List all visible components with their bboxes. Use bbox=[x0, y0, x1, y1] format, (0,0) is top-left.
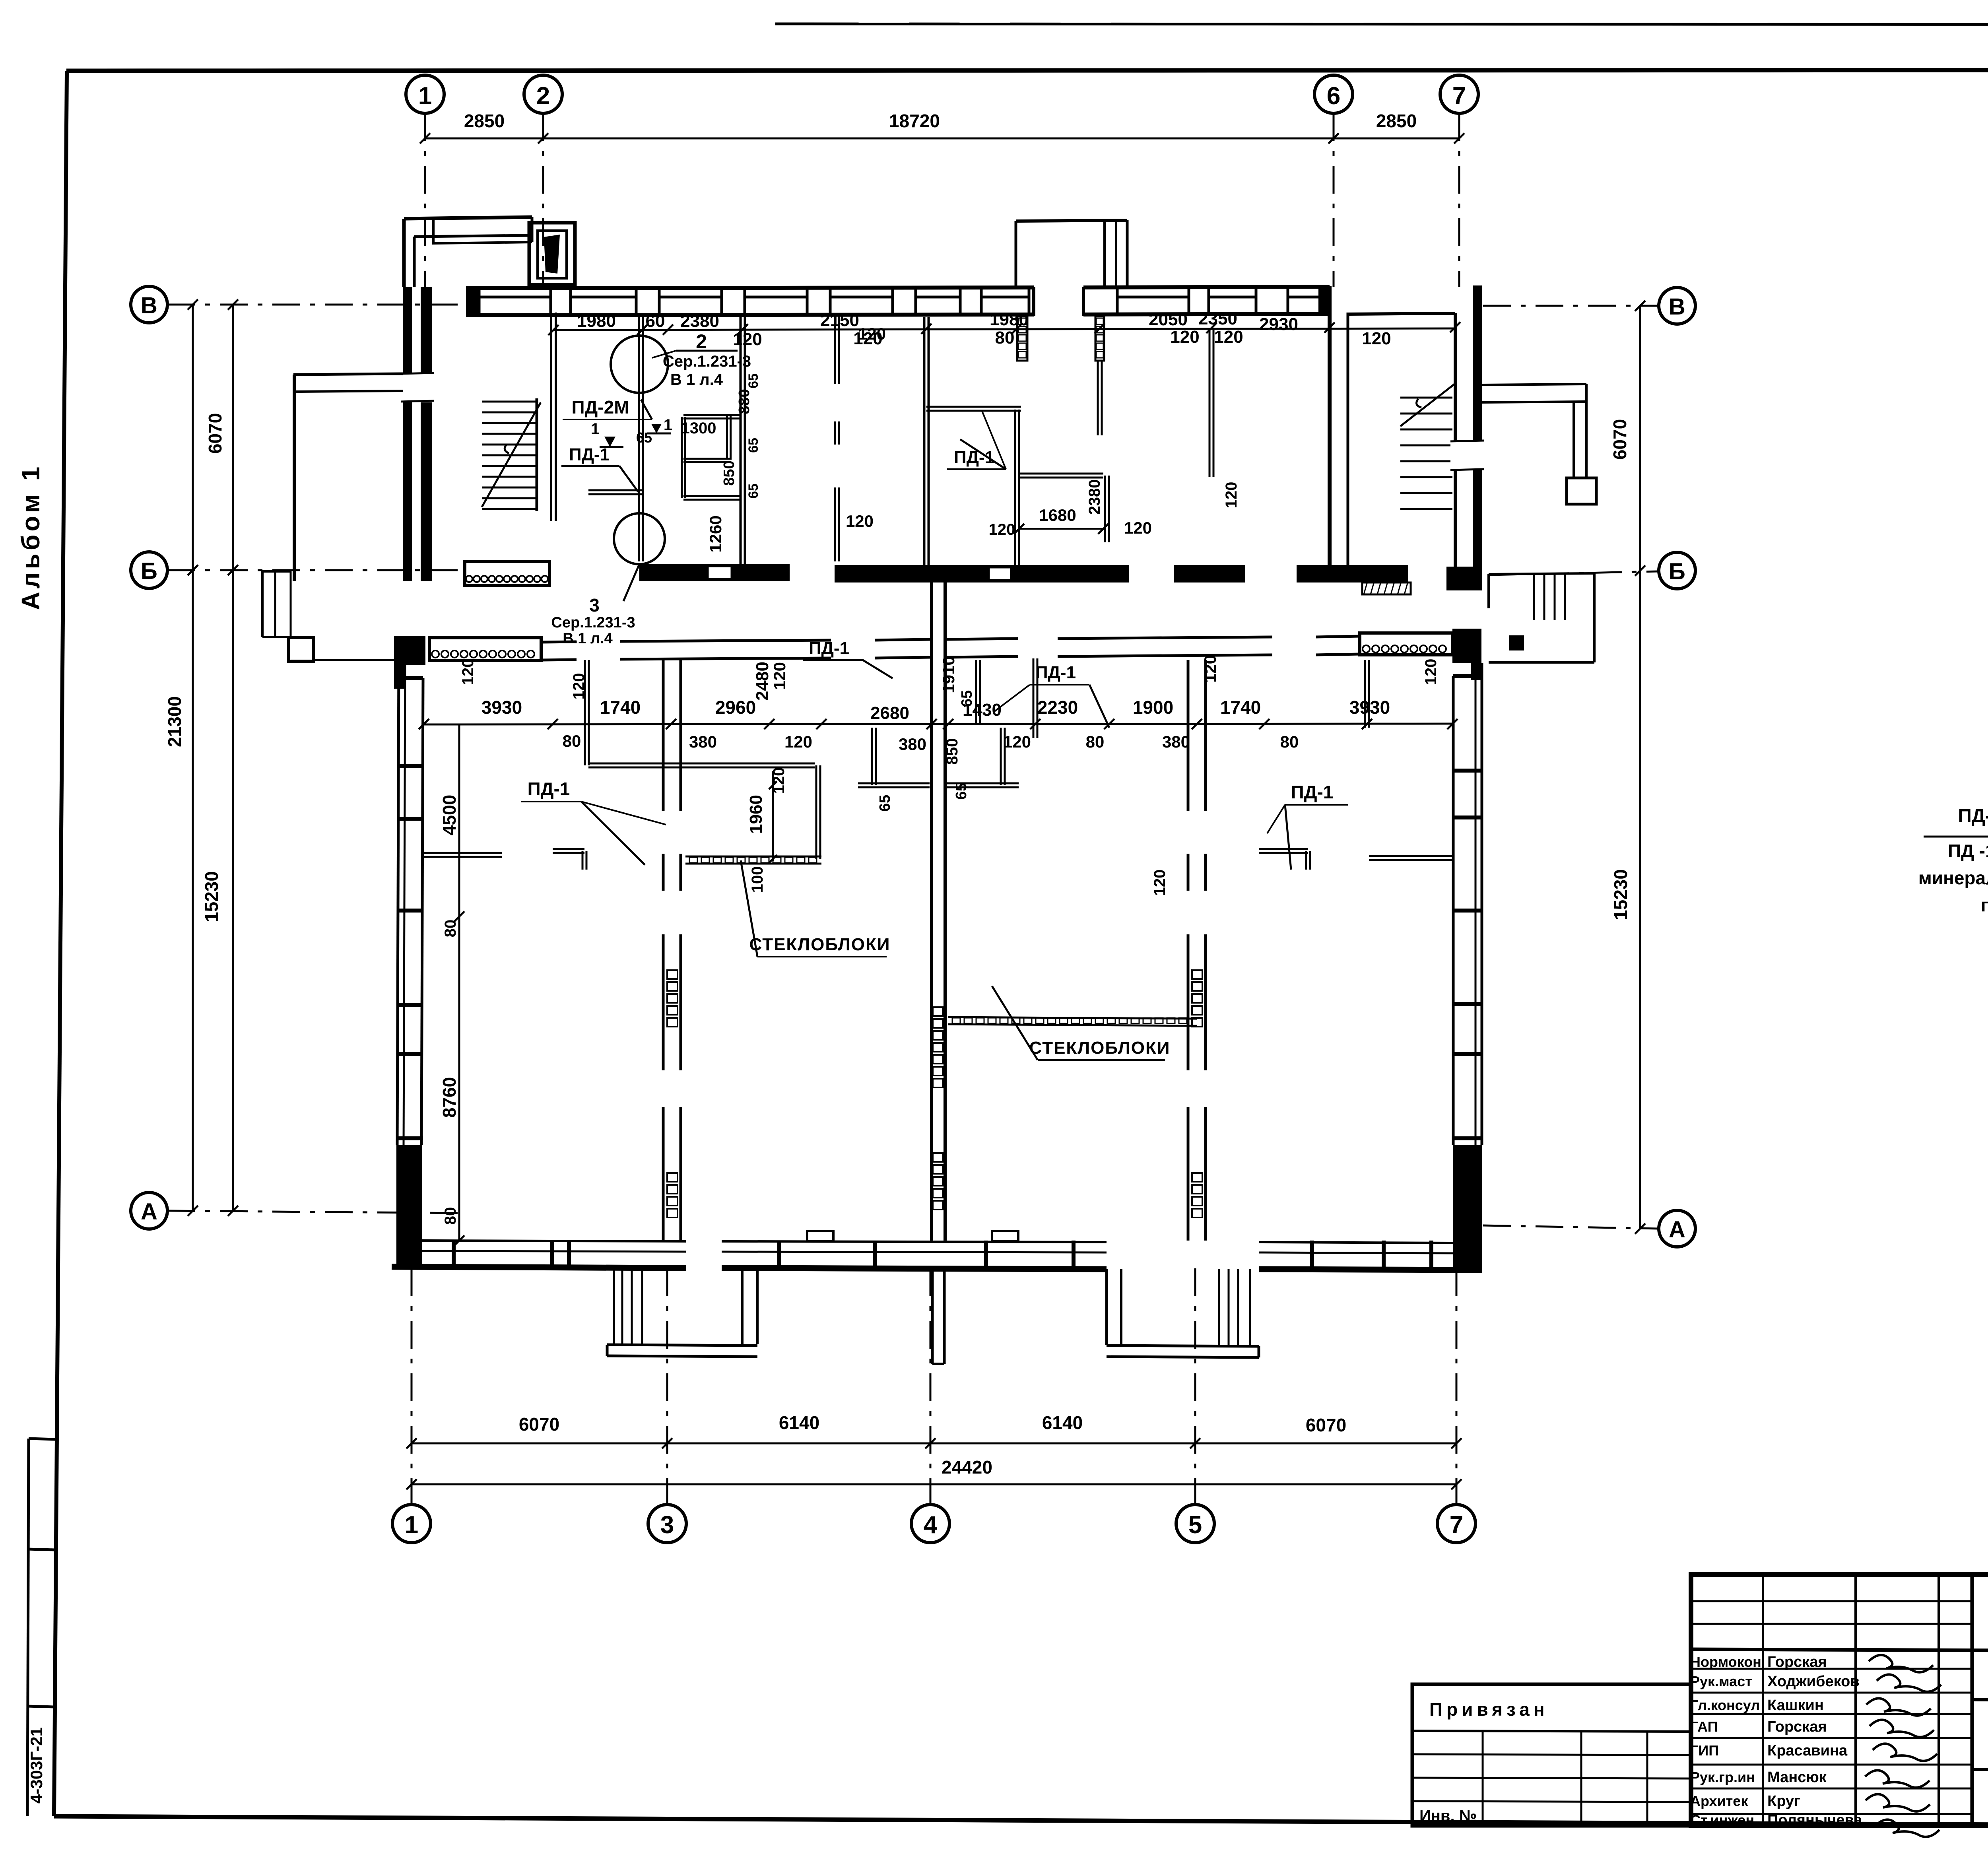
glass partition left bbox=[685, 856, 821, 858]
south wall cap bbox=[452, 1241, 456, 1268]
svg-text:Нормокон: Нормокон bbox=[1690, 1654, 1761, 1670]
central spine wall bbox=[930, 581, 933, 1241]
svg-text:120: 120 bbox=[1214, 327, 1243, 347]
window В steps bbox=[478, 287, 481, 297]
svg-text:80: 80 bbox=[995, 328, 1015, 348]
window В box bbox=[571, 297, 636, 315]
axis3 wall seg bbox=[662, 660, 665, 811]
west wall cap bbox=[397, 1052, 423, 1056]
upper west wall window bbox=[401, 373, 434, 402]
svg-text:3930: 3930 bbox=[1349, 697, 1390, 718]
svg-text:5: 5 bbox=[1188, 1511, 1202, 1539]
east wall cap bbox=[1453, 909, 1482, 913]
wall В top line right bbox=[1083, 287, 1330, 287]
glass partition v2 bbox=[1095, 316, 1104, 361]
svg-text:7: 7 bbox=[1450, 1511, 1463, 1539]
svg-text:120: 120 bbox=[846, 512, 874, 530]
sig row line bbox=[1691, 1713, 1972, 1715]
svg-text:120: 120 bbox=[1422, 659, 1440, 685]
axis circle 7 top bbox=[1440, 75, 1478, 113]
axis line Б left bbox=[167, 569, 465, 571]
svg-text:6070: 6070 bbox=[205, 413, 225, 454]
dim line 1680 bbox=[1019, 528, 1103, 530]
axis circle 4 bottom bbox=[911, 1505, 949, 1543]
south wall cap bbox=[1382, 1241, 1386, 1268]
svg-text:100: 100 bbox=[749, 866, 766, 893]
west entrance link bbox=[313, 659, 396, 661]
window В steps bbox=[980, 287, 983, 297]
axis line 7 top bbox=[1458, 113, 1460, 287]
window В steps bbox=[658, 287, 661, 297]
axis line 1 bottom bbox=[411, 1268, 413, 1505]
porch A east wall bbox=[741, 1268, 744, 1344]
dim tick bbox=[1030, 719, 1041, 729]
h partition y1925 bbox=[588, 763, 815, 765]
svg-text:Рук.маст: Рук.маст bbox=[1690, 1673, 1752, 1689]
window В steps bbox=[569, 287, 572, 297]
partition x2558 glass bbox=[1014, 410, 1016, 579]
svg-text:1740: 1740 bbox=[600, 697, 641, 718]
привязан cols bbox=[1482, 1731, 1484, 1826]
svg-text:80: 80 bbox=[1086, 732, 1105, 751]
svg-text:7: 7 bbox=[1452, 82, 1466, 110]
south wall cap bbox=[1429, 1241, 1433, 1268]
east entrance outline bbox=[1489, 573, 1594, 574]
wall Б seg2 marks bbox=[708, 566, 732, 579]
east wall cap bbox=[1453, 1052, 1482, 1056]
north wall seg6 bbox=[1316, 636, 1360, 637]
partition x2105 bbox=[834, 316, 836, 384]
stairwell top inner bbox=[1348, 313, 1455, 314]
svg-text:2150: 2150 bbox=[820, 311, 859, 330]
dim tick bbox=[228, 1206, 238, 1216]
window В box bbox=[830, 297, 893, 315]
partition x3438 bbox=[1364, 660, 1366, 728]
partition small rooms v1 bbox=[681, 417, 683, 498]
wall Б seg2 bbox=[639, 564, 790, 581]
upper west wall inner bar bbox=[421, 287, 432, 581]
north wall hatched window E bbox=[1360, 633, 1452, 655]
axis3 wall seg bbox=[662, 854, 665, 891]
axis5 wall seg bbox=[1187, 660, 1190, 811]
window В box bbox=[659, 297, 722, 315]
north wall seg3 bbox=[875, 639, 930, 640]
svg-text:Привязан: Привязан bbox=[1429, 1699, 1549, 1720]
left column outer line bbox=[27, 1439, 29, 1816]
svg-text:ПД-1: ПД-1 bbox=[1291, 782, 1334, 802]
h partition west2 bbox=[553, 848, 584, 850]
window В steps bbox=[1208, 287, 1210, 297]
svg-text:ГАП: ГАП bbox=[1690, 1718, 1718, 1735]
glass partition v1 bbox=[1017, 316, 1027, 361]
svg-text:4-303Г-21: 4-303Г-21 bbox=[27, 1727, 46, 1804]
stub h y1975 right bbox=[947, 782, 1019, 784]
axis5 wall seg bbox=[1187, 1107, 1190, 1241]
svg-text:В: В bbox=[1669, 294, 1685, 320]
svg-text:6140: 6140 bbox=[1042, 1412, 1083, 1433]
sig row line bbox=[1691, 1668, 1972, 1670]
svg-text:минераловатных: минераловатных bbox=[1918, 868, 1988, 888]
svg-text:В.1 л.4: В.1 л.4 bbox=[563, 630, 613, 647]
detail circle 3 leader bbox=[623, 564, 639, 601]
sig col line bbox=[1854, 1575, 1857, 1826]
east walkway turn bbox=[1573, 402, 1575, 478]
svg-text:Кашкин: Кашкин bbox=[1767, 1697, 1824, 1714]
svg-text:2230: 2230 bbox=[1037, 697, 1078, 718]
projection top bbox=[1016, 220, 1127, 221]
svg-text:А: А bbox=[141, 1199, 157, 1225]
south wall cap bbox=[550, 1241, 554, 1268]
svg-text:1260: 1260 bbox=[706, 515, 725, 552]
axis line А right bbox=[1483, 1225, 1659, 1229]
detail circle 2 bbox=[611, 336, 668, 393]
axis line 5 bottom bbox=[1194, 1268, 1196, 1505]
axis line 1 top bbox=[424, 113, 426, 287]
svg-text:8760: 8760 bbox=[439, 1077, 460, 1118]
svg-text:2: 2 bbox=[696, 330, 707, 353]
svg-text:60: 60 bbox=[646, 311, 665, 331]
axis line В right bbox=[1483, 305, 1659, 307]
dim tick bbox=[1190, 1438, 1200, 1448]
svg-text:Сер.1.231-3: Сер.1.231-3 bbox=[663, 353, 751, 370]
h partition east bbox=[1369, 855, 1452, 857]
axis3 wall glass c bbox=[667, 970, 678, 979]
upper dim line bbox=[553, 328, 1455, 330]
svg-text:1740: 1740 bbox=[1220, 697, 1261, 718]
svg-text:Горская: Горская bbox=[1767, 1654, 1827, 1670]
signatures squiggles bbox=[1869, 1655, 1933, 1672]
dim tick bbox=[538, 133, 548, 144]
east wall cap bbox=[1453, 674, 1482, 678]
west entrance platform bbox=[289, 637, 313, 661]
bottom dim line segments bbox=[412, 1443, 1456, 1445]
axis circle В left bbox=[131, 286, 167, 323]
svg-text:65: 65 bbox=[636, 429, 652, 446]
sig row line bbox=[1691, 1764, 1972, 1766]
svg-text:1: 1 bbox=[418, 82, 432, 110]
svg-text:СТЕКЛОБЛОКИ: СТЕКЛОБЛОКИ bbox=[1029, 1038, 1171, 1058]
svg-text:2930: 2930 bbox=[1259, 315, 1298, 334]
svg-text:120: 120 bbox=[989, 521, 1015, 538]
dim tick bbox=[1104, 719, 1114, 729]
east walkway lines bbox=[1482, 384, 1586, 385]
svg-text:120: 120 bbox=[1124, 518, 1152, 537]
upper dim ticks bbox=[548, 325, 559, 335]
svg-text:ПД-1: ПД-1 bbox=[528, 779, 570, 799]
svg-text:4500: 4500 bbox=[439, 795, 460, 835]
porch B base bbox=[1107, 1346, 1259, 1346]
svg-text:2350: 2350 bbox=[1198, 309, 1237, 328]
svg-text:1980: 1980 bbox=[577, 311, 616, 331]
svg-text:Мансюк: Мансюк bbox=[1767, 1769, 1827, 1786]
svg-text:ПД-1: ПД-1 bbox=[1035, 663, 1076, 682]
porch A base bbox=[607, 1345, 757, 1346]
sig row line bbox=[1691, 1813, 1972, 1815]
west wall cap bbox=[397, 909, 423, 913]
glass partition right bbox=[948, 1017, 1197, 1019]
vestibule window box bbox=[529, 223, 575, 285]
svg-text:1980: 1980 bbox=[990, 310, 1029, 329]
stairs right diagonal bbox=[1400, 384, 1454, 426]
stairs left treads bbox=[482, 401, 537, 403]
north wall hatched window bbox=[429, 638, 541, 660]
привязан box bbox=[1412, 1684, 1691, 1826]
stairwell inner right bbox=[1454, 313, 1457, 567]
detail circle 3 bbox=[614, 513, 665, 564]
svg-text:2680: 2680 bbox=[870, 703, 909, 723]
east entrance treads bbox=[1533, 574, 1535, 620]
frame left line bbox=[54, 71, 67, 1816]
axis circle 3 bottom bbox=[648, 1505, 686, 1543]
title block h 4450 bbox=[1972, 1769, 1988, 1770]
title block outline bbox=[1691, 1575, 1988, 1826]
svg-text:ПД-2М: ПД-2М bbox=[1958, 806, 1988, 827]
svg-text:120: 120 bbox=[459, 659, 477, 685]
window В box bbox=[1117, 297, 1189, 315]
axis line 3 bottom bbox=[666, 1268, 668, 1505]
svg-text:2380: 2380 bbox=[680, 311, 719, 331]
svg-text:плит/: плит/ bbox=[1981, 895, 1988, 915]
west wall mid bbox=[404, 663, 405, 1145]
svg-text:6140: 6140 bbox=[779, 1412, 819, 1433]
porch B steps bbox=[1218, 1269, 1220, 1345]
dim tick bbox=[420, 133, 430, 144]
svg-text:ГИП: ГИП bbox=[1690, 1742, 1719, 1759]
wall Б stair corner bbox=[1446, 567, 1482, 590]
dim tick bbox=[1451, 1479, 1462, 1489]
axis line Б right bbox=[1489, 571, 1659, 575]
dim tick bbox=[547, 719, 558, 729]
east wall cap bbox=[1453, 1136, 1482, 1140]
sig row line bbox=[1691, 1623, 1972, 1625]
west wall inner bbox=[421, 678, 423, 1145]
sig col line bbox=[1938, 1575, 1940, 1826]
svg-text:3: 3 bbox=[660, 1511, 674, 1539]
dim tick bbox=[406, 1479, 417, 1489]
south wall cap bbox=[567, 1241, 571, 1268]
svg-text:80: 80 bbox=[442, 1207, 459, 1225]
south wall inner3 bbox=[1259, 1242, 1453, 1243]
stub v x2058 bbox=[815, 765, 817, 859]
window В steps bbox=[1287, 287, 1289, 297]
south wall cap bbox=[1072, 1241, 1076, 1268]
west wall cap bbox=[397, 764, 423, 768]
north wall seg2 bbox=[620, 640, 831, 641]
axis line В left bbox=[167, 304, 465, 306]
south wall mid2 bbox=[722, 1252, 1107, 1252]
svg-text:2: 2 bbox=[536, 82, 550, 110]
svg-text:120: 120 bbox=[858, 324, 886, 343]
svg-text:ПД-1: ПД-1 bbox=[809, 639, 849, 658]
axis circle Б left bbox=[131, 552, 167, 588]
vestibule outline bbox=[404, 217, 532, 219]
svg-text:850: 850 bbox=[721, 460, 738, 485]
svg-text:1900: 1900 bbox=[1133, 697, 1173, 718]
svg-text:15230: 15230 bbox=[201, 871, 222, 922]
east wall inner bbox=[1452, 676, 1455, 1145]
left column divider 1 bbox=[28, 1549, 55, 1550]
partition x3047 bbox=[1209, 329, 1211, 477]
title block h 4275 bbox=[1972, 1700, 1988, 1701]
pier В corner R bbox=[1318, 285, 1330, 315]
partition h2 1680 bbox=[1019, 473, 1103, 475]
left inner dim line bbox=[458, 724, 460, 1241]
dim tick bbox=[1447, 719, 1458, 729]
lower dim line bbox=[424, 724, 1452, 724]
title block v 4960 bbox=[1971, 1575, 1974, 1826]
привязан rows bbox=[1412, 1754, 1691, 1755]
west wall cap bbox=[397, 676, 423, 680]
stub v x2522 bbox=[1000, 728, 1002, 785]
svg-text:120: 120 bbox=[1362, 329, 1391, 348]
axis line 2 top bbox=[542, 113, 544, 287]
north wall seg5 bbox=[1058, 637, 1272, 639]
west terrace wall bbox=[293, 375, 296, 581]
svg-text:120: 120 bbox=[1201, 655, 1219, 683]
axis circle А left bbox=[131, 1192, 167, 1229]
stairwell corridor wall bbox=[550, 313, 552, 521]
stub v x2198 bbox=[871, 728, 873, 785]
east wall outer bbox=[1481, 663, 1483, 1145]
axis circle 7 bottom bbox=[1437, 1505, 1475, 1543]
svg-text:80: 80 bbox=[563, 732, 581, 750]
right dim line bbox=[1639, 306, 1641, 1229]
south wall cap bbox=[984, 1241, 988, 1268]
south porch bump 1 bbox=[807, 1231, 833, 1241]
wall Б seg5 bbox=[1297, 565, 1408, 582]
svg-text:850: 850 bbox=[944, 738, 961, 765]
south wall cap bbox=[873, 1241, 877, 1268]
svg-text:Ходжибеков: Ходжибеков bbox=[1767, 1673, 1860, 1690]
south wall inner bbox=[422, 1241, 686, 1241]
south wall mid bbox=[422, 1251, 686, 1252]
svg-text:120: 120 bbox=[784, 732, 812, 751]
wall right of stairs bbox=[740, 316, 742, 564]
svg-text:880: 880 bbox=[736, 389, 753, 414]
svg-text:6070: 6070 bbox=[1306, 1415, 1346, 1435]
dim tick bbox=[188, 1206, 198, 1216]
dim tick bbox=[1635, 301, 1645, 311]
central spine glass2 bbox=[933, 1153, 943, 1162]
stair block west wall bbox=[1328, 286, 1332, 567]
south wall outer seg2 bbox=[722, 1268, 1107, 1269]
partition stub x2784 bbox=[1104, 476, 1106, 542]
left column top divider bbox=[29, 1439, 56, 1439]
axis circle 1 top bbox=[406, 75, 444, 113]
sig row line bbox=[1691, 1692, 1972, 1694]
svg-text:Горская: Горская bbox=[1767, 1718, 1827, 1735]
svg-text:120: 120 bbox=[770, 767, 788, 794]
partition h ПД-1 left bbox=[588, 489, 643, 491]
wall В sill line right bbox=[1083, 314, 1330, 315]
dim tick bbox=[943, 719, 953, 729]
svg-text:120: 120 bbox=[1151, 870, 1169, 896]
svg-text:65: 65 bbox=[746, 438, 761, 453]
axis3 wall seg bbox=[662, 934, 665, 1070]
dim tick bbox=[1635, 1223, 1645, 1234]
svg-text:65: 65 bbox=[746, 483, 761, 499]
wall Б seg3 marks bbox=[989, 567, 1011, 580]
dim tick bbox=[816, 719, 827, 729]
dim tick bbox=[228, 299, 238, 310]
upper east wall outer bar bbox=[1473, 285, 1482, 581]
dim tick bbox=[926, 719, 937, 729]
south wall cap bbox=[1310, 1241, 1314, 1268]
wall Б seg4 bbox=[1174, 565, 1245, 582]
svg-text:2960: 2960 bbox=[715, 697, 756, 718]
axis5 wall seg bbox=[1187, 934, 1190, 1070]
svg-text:1300: 1300 bbox=[681, 419, 716, 437]
svg-text:Красавина: Красавина bbox=[1767, 1742, 1848, 1759]
svg-text:1960: 1960 bbox=[746, 795, 766, 834]
svg-text:Гл.консул: Гл.консул bbox=[1690, 1697, 1760, 1713]
svg-text:120: 120 bbox=[1170, 327, 1199, 347]
svg-text:СТЕКЛОБЛОКИ: СТЕКЛОБЛОКИ bbox=[749, 935, 891, 954]
wall В top line bbox=[466, 287, 1034, 288]
wall Б seg5 hatch bbox=[1362, 582, 1411, 594]
dim tick bbox=[1451, 1438, 1462, 1448]
east wall cap bbox=[1453, 815, 1482, 819]
svg-text:1: 1 bbox=[405, 1511, 418, 1539]
east entrance platform bbox=[1509, 635, 1524, 650]
sig row line bbox=[1691, 1788, 1972, 1790]
title block thick h1 bbox=[1691, 1649, 1988, 1652]
svg-text:2850: 2850 bbox=[464, 111, 505, 131]
axis3 wall glass d bbox=[667, 1173, 678, 1182]
axis5 wall glass d bbox=[1192, 1173, 1202, 1182]
svg-text:380: 380 bbox=[1162, 732, 1190, 751]
partition small rooms v2 bbox=[726, 415, 728, 460]
east wall mid bbox=[1475, 663, 1477, 1145]
window В box bbox=[1288, 297, 1322, 315]
dim tick bbox=[764, 719, 775, 729]
dim tick bbox=[188, 565, 198, 575]
axis circle 1 bottom bbox=[392, 1505, 431, 1543]
svg-text:Круг: Круг bbox=[1767, 1793, 1800, 1810]
partition ПД-2М bbox=[638, 315, 640, 561]
svg-text:65: 65 bbox=[959, 690, 975, 707]
svg-text:380: 380 bbox=[689, 732, 717, 751]
svg-text:120: 120 bbox=[733, 330, 762, 349]
svg-text:Рук.гр.ин: Рук.гр.ин bbox=[1690, 1769, 1755, 1785]
south wall inner2 bbox=[722, 1241, 1107, 1242]
stairwell side wall bbox=[536, 398, 538, 511]
east wall corner S bbox=[1453, 1145, 1482, 1269]
axis circle 5 bottom bbox=[1176, 1505, 1214, 1543]
svg-text:Сер.1.231-3: Сер.1.231-3 bbox=[551, 614, 635, 631]
south wall mid3 bbox=[1259, 1252, 1453, 1253]
west wall cap bbox=[397, 1003, 423, 1007]
svg-text:65: 65 bbox=[877, 795, 893, 812]
sig row line bbox=[1691, 1600, 1972, 1602]
axis line 6 top bbox=[1333, 113, 1335, 287]
svg-text:15230: 15230 bbox=[1610, 869, 1631, 920]
svg-text:В: В bbox=[141, 293, 157, 318]
wall В sill line bbox=[466, 315, 1034, 315]
north wall seg1 bbox=[541, 642, 577, 642]
dim tick bbox=[1192, 719, 1202, 729]
axis3 wall seg bbox=[662, 1107, 665, 1241]
south porch bump 2 bbox=[992, 1231, 1018, 1241]
axis5 wall glass c bbox=[1192, 970, 1202, 979]
svg-text:2480: 2480 bbox=[753, 662, 772, 701]
h partition west bbox=[424, 852, 502, 854]
window В box bbox=[981, 297, 1029, 315]
svg-text:Ст.инжен: Ст.инжен bbox=[1690, 1812, 1754, 1828]
stub v x2604 bbox=[1033, 658, 1035, 738]
svg-text:6070: 6070 bbox=[519, 1414, 559, 1435]
wall Б hatch circles bbox=[466, 576, 472, 582]
